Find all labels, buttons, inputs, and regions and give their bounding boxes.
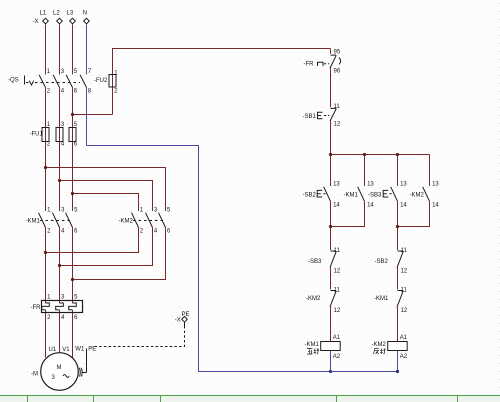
svg-text:PE: PE — [182, 312, 190, 318]
svg-text:L3: L3 — [67, 10, 74, 16]
svg-text:-X: -X — [33, 19, 39, 25]
svg-text:-KM2: -KM2 — [410, 193, 425, 199]
svg-text:-QS: -QS — [8, 77, 19, 83]
svg-text:-SB2: -SB2 — [303, 193, 317, 199]
svg-text:-FU2: -FU2 — [94, 78, 108, 84]
svg-text:12: 12 — [401, 308, 408, 314]
svg-text:12: 12 — [334, 308, 341, 314]
svg-text:-SB3: -SB3 — [368, 193, 382, 199]
svg-text:13: 13 — [333, 181, 340, 187]
svg-text:95: 95 — [334, 50, 341, 56]
svg-text:11: 11 — [334, 288, 341, 294]
svg-text:14: 14 — [432, 203, 439, 209]
svg-text:13: 13 — [367, 181, 374, 187]
svg-text:-FR: -FR — [304, 61, 315, 67]
svg-text:A2: A2 — [333, 354, 341, 360]
svg-text:11: 11 — [401, 288, 408, 294]
svg-text:-SB2: -SB2 — [375, 259, 389, 265]
svg-text:-KM2: -KM2 — [306, 296, 321, 302]
svg-text:W1: W1 — [75, 347, 85, 353]
svg-text:13: 13 — [400, 181, 407, 187]
svg-text:-SB1: -SB1 — [303, 114, 317, 120]
svg-text:U1: U1 — [49, 347, 57, 353]
svg-text:N: N — [83, 10, 87, 16]
svg-text:V1: V1 — [62, 347, 70, 353]
svg-text:-X: -X — [175, 318, 181, 324]
svg-text:14: 14 — [367, 203, 374, 209]
svg-text:96: 96 — [334, 69, 341, 75]
svg-text:-FU1: -FU1 — [30, 132, 44, 138]
svg-text:14: 14 — [333, 203, 340, 209]
svg-text:11: 11 — [334, 104, 341, 110]
svg-text:PE: PE — [88, 347, 96, 353]
svg-text:-KM1: -KM1 — [344, 193, 359, 199]
svg-text:12: 12 — [334, 122, 341, 128]
svg-text:-KM1: -KM1 — [374, 296, 389, 302]
svg-text:-KM1: -KM1 — [305, 342, 320, 348]
svg-text:A2: A2 — [400, 354, 408, 360]
svg-text:13: 13 — [432, 181, 439, 187]
svg-text:A1: A1 — [400, 335, 408, 341]
svg-text:-M: -M — [31, 372, 38, 378]
svg-text:-KM2: -KM2 — [119, 219, 134, 225]
svg-text:-SB3: -SB3 — [308, 259, 322, 265]
svg-text:A1: A1 — [333, 335, 341, 341]
svg-text:14: 14 — [400, 203, 407, 209]
svg-text:12: 12 — [401, 268, 408, 274]
svg-text:-FR: -FR — [31, 305, 42, 311]
svg-text:L2: L2 — [53, 10, 60, 16]
svg-text:M: M — [57, 365, 62, 371]
svg-text:L1: L1 — [40, 10, 47, 16]
svg-text:11: 11 — [401, 248, 408, 254]
svg-text:11: 11 — [334, 248, 341, 254]
svg-text:12: 12 — [334, 268, 341, 274]
svg-text:-KM2: -KM2 — [372, 342, 387, 348]
svg-text:-KM1: -KM1 — [26, 219, 41, 225]
